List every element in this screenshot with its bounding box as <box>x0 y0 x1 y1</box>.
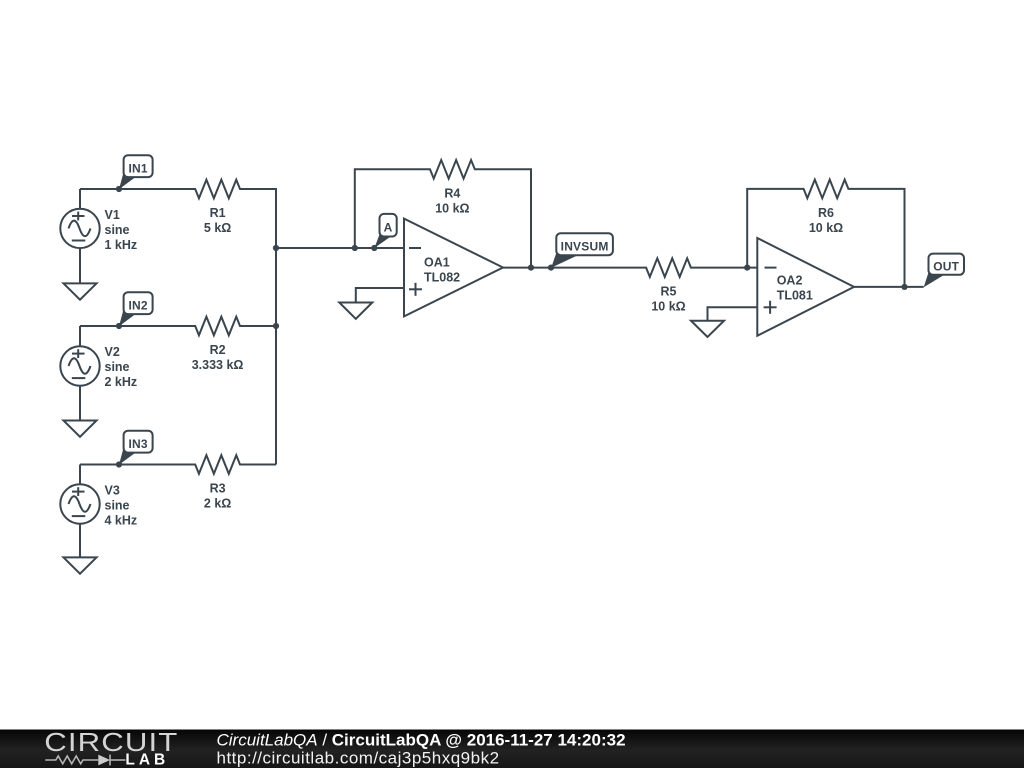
svg-text:OA2: OA2 <box>777 274 803 288</box>
svg-text:sine: sine <box>105 223 130 237</box>
svg-text:TL081: TL081 <box>777 289 813 303</box>
svg-text:1 kHz: 1 kHz <box>105 238 138 252</box>
svg-text:R2: R2 <box>210 343 226 357</box>
svg-text:A: A <box>384 221 393 235</box>
svg-text:R3: R3 <box>210 482 226 496</box>
svg-text:OA1: OA1 <box>424 256 450 270</box>
svg-text:IN2: IN2 <box>128 299 147 313</box>
svg-text:10 kΩ: 10 kΩ <box>809 221 843 235</box>
svg-text:10 kΩ: 10 kΩ <box>651 300 685 314</box>
svg-text:R6: R6 <box>818 206 834 220</box>
svg-text:10 kΩ: 10 kΩ <box>435 201 469 215</box>
svg-text:V2: V2 <box>105 345 120 359</box>
svg-text:IN3: IN3 <box>128 437 147 451</box>
svg-text:R5: R5 <box>661 285 677 299</box>
svg-text:2 kΩ: 2 kΩ <box>204 497 231 511</box>
svg-text:5 kΩ: 5 kΩ <box>204 221 231 235</box>
svg-text:TL082: TL082 <box>424 271 460 285</box>
svg-text:sine: sine <box>105 360 130 374</box>
svg-text:V1: V1 <box>105 208 120 222</box>
svg-text:OUT: OUT <box>933 260 959 274</box>
svg-text:http://circuitlab.com/caj3p5hx: http://circuitlab.com/caj3p5hxq9bk2 <box>217 748 500 767</box>
svg-text:R4: R4 <box>444 186 460 200</box>
svg-text:LAB: LAB <box>125 751 169 768</box>
svg-text:IN1: IN1 <box>128 162 147 176</box>
svg-text:CircuitLabQA / CircuitLabQA @: CircuitLabQA / CircuitLabQA @ 2016-11-27… <box>217 730 626 749</box>
svg-text:2 kHz: 2 kHz <box>105 375 138 389</box>
svg-text:4 kHz: 4 kHz <box>105 513 138 527</box>
svg-text:sine: sine <box>105 498 130 512</box>
svg-text:V3: V3 <box>105 483 120 497</box>
svg-text:INVSUM: INVSUM <box>561 240 609 254</box>
svg-text:R1: R1 <box>210 206 226 220</box>
svg-text:3.333 kΩ: 3.333 kΩ <box>192 358 244 372</box>
